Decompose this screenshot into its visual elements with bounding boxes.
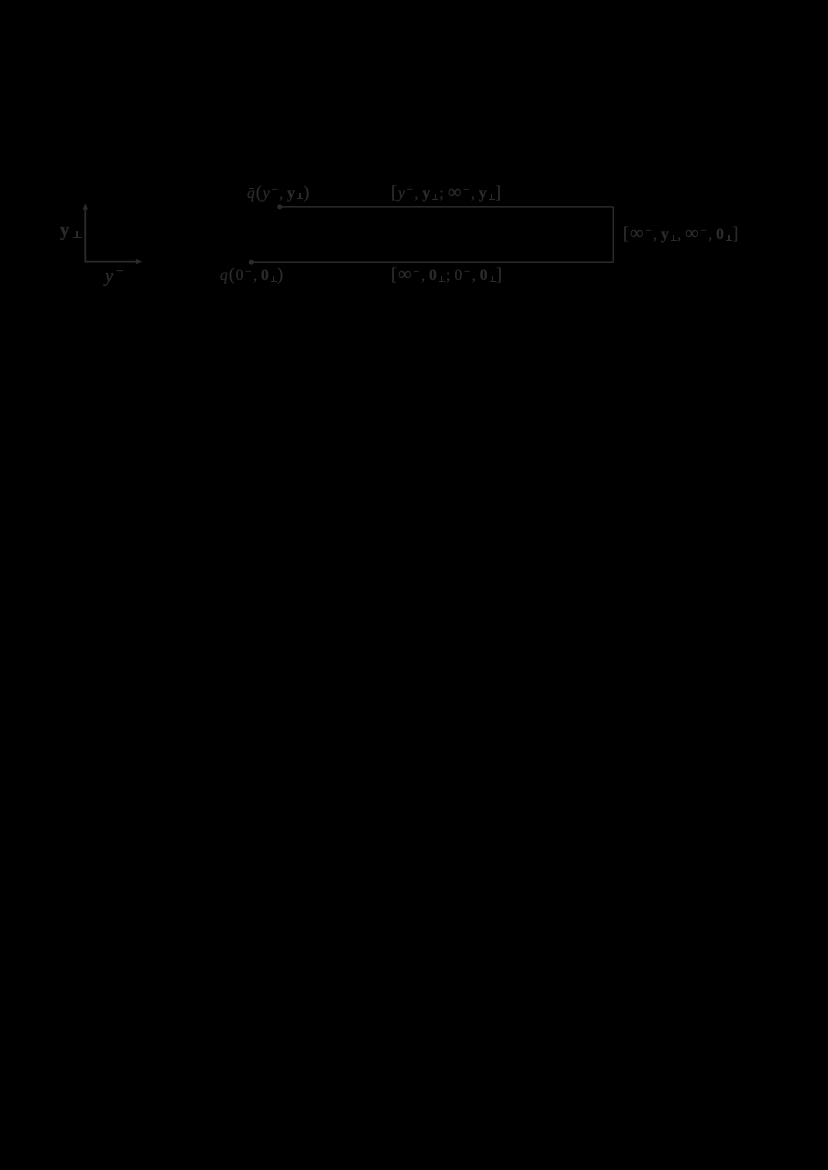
axis label y^- bbox=[105, 268, 125, 287]
node q(0-,0perp) : bottom dot bbox=[249, 260, 254, 265]
node qbar(y-,yperp) : top dot bbox=[277, 204, 282, 209]
wire gauge-link right segment [inf-,yperp ; inf-,0perp] bbox=[612, 207, 614, 262]
label qbar(y-, y_perp) bbox=[247, 186, 310, 203]
wire gauge-link bottom segment [inf-,0perp ; 0-,0perp] bbox=[251, 261, 613, 263]
wire gauge-link top segment [y-,yperp ; inf-,yperp] bbox=[280, 206, 614, 208]
label [inf-, 0_perp ; 0-, 0_perp] bbox=[391, 268, 503, 285]
axis label y_perp bbox=[60, 222, 82, 241]
label q(0-, 0_perp) bbox=[220, 268, 284, 285]
axis y-perp (vertical arrow) bbox=[83, 203, 88, 262]
label [y-, y_perp ; inf-, y_perp] bbox=[391, 186, 502, 203]
axis y-minus (horizontal arrow) bbox=[84, 259, 142, 264]
label [inf-, y_perp , inf-, 0_perp] bbox=[623, 227, 739, 244]
